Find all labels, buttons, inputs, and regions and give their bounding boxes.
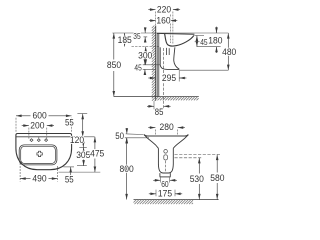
drain hidden centerline (165, 161, 167, 173)
tick 50 bottom (125, 137, 149, 139)
svg-text:220: 220 (157, 4, 171, 14)
svg-text:55: 55 (65, 175, 74, 185)
bowl inner (21, 146, 56, 163)
floor hatch band (156, 97, 199, 100)
dimension 580 (216, 155, 218, 173)
line at 46.7 right (197, 46, 221, 48)
dimension 530 (198, 158, 200, 174)
dimension 180 (216, 27, 218, 33)
dimension 600 (15, 118, 17, 132)
svg-text:85: 85 (155, 107, 164, 117)
svg-text:305: 305 (76, 150, 90, 160)
drain hole detail (164, 150, 168, 154)
svg-text:475: 475 (90, 149, 104, 159)
dimension 200 (28, 128, 30, 140)
dimension 50 (126, 128, 128, 134)
basin back edge (156, 33, 158, 97)
ground hatch band (134, 200, 194, 204)
dimension 55 top (82, 114, 84, 137)
floor line (114, 96, 199, 98)
svg-text:185: 185 (118, 35, 132, 45)
svg-text:850: 850 (107, 60, 121, 70)
dimension 490 (19, 163, 21, 182)
dimension 185 (124, 33, 126, 36)
shroud left edge (159, 47, 161, 64)
dimension 60 (159, 177, 161, 182)
dimension 480 (227, 33, 229, 70)
pedestal column with rounded bottom (158, 148, 173, 173)
wall face line (155, 26, 157, 101)
svg-text:295: 295 (162, 73, 176, 83)
dimension 160 (149, 20, 156, 22)
svg-text:120: 120 (70, 135, 84, 145)
svg-text:300: 300 (138, 50, 152, 60)
svg-text:180: 180 (208, 35, 222, 45)
svg-text:45: 45 (200, 38, 208, 47)
ext of inner back line (72, 136, 95, 138)
dimension 220 (155, 12, 157, 26)
svg-text:600: 600 (33, 111, 47, 121)
dimension 35 (144, 36, 148, 38)
tick 55-top (77, 113, 87, 115)
dimension 850 (113, 33, 115, 60)
outer outline (16, 134, 72, 170)
pedestal plinth right side (169, 173, 171, 177)
svg-text:530: 530 (190, 174, 204, 184)
bowl outer (19, 145, 57, 165)
dashed ext 530 (175, 157, 203, 159)
inner back line (16, 136, 72, 138)
trap under bowl (166, 48, 168, 55)
dimension 120 (82, 137, 84, 148)
tick 50 top (126, 133, 144, 136)
faucet hole right (45, 139, 48, 142)
wall hatch band (152, 26, 156, 101)
shroud bottom edge (160, 65, 179, 70)
svg-text:800: 800 (120, 164, 134, 174)
ext line 475 bottom (59, 171, 101, 173)
dashed line under basin left (132, 46, 159, 48)
drain cross (37, 151, 42, 156)
faucet hole middle mark (38, 137, 40, 138)
left wing underside (144, 135, 158, 149)
svg-text:35: 35 (133, 32, 141, 41)
svg-text:175: 175 (158, 189, 172, 199)
dimension 475 (94, 137, 96, 150)
faucet hole middle (37, 139, 40, 142)
drain centerline dashed (163, 48, 165, 109)
dimension 295 (155, 72, 157, 82)
dimension 45 left (144, 60, 146, 65)
svg-text:280: 280 (160, 122, 174, 132)
svg-text:45: 45 (134, 64, 142, 73)
dimension 280 (154, 130, 156, 136)
dimension 85 bottom of side view (153, 101, 155, 109)
svg-text:490: 490 (32, 174, 46, 184)
basin rim top line (157, 32, 194, 35)
shroud right edge with flare (174, 47, 180, 69)
svg-text:200: 200 (30, 121, 44, 131)
svg-text:60: 60 (161, 179, 169, 189)
faucet hole left (30, 139, 33, 142)
svg-text:50: 50 (115, 131, 124, 141)
dimension 305 (83, 147, 85, 150)
dimension 175 (155, 190, 157, 197)
dashed ext 580 (175, 154, 222, 156)
pedestal foot bottom (160, 176, 171, 178)
svg-text:55: 55 (65, 118, 74, 128)
overflow detail (164, 155, 168, 160)
ext line shroud bottom right (180, 69, 229, 71)
dimension 800 (126, 138, 128, 200)
basin top edge (144, 134, 188, 136)
pedestal plinth left side (159, 173, 161, 177)
top extension line at rim level (112, 32, 228, 34)
svg-text:160: 160 (156, 15, 170, 25)
dimension 55 bottom (70, 167, 72, 177)
svg-text:480: 480 (222, 47, 236, 57)
tick 120 bottom (79, 146, 87, 148)
tick 305 bottom (77, 165, 87, 167)
dimension 300 (145, 47, 147, 50)
tick 45-left bottom (143, 68, 156, 70)
svg-text:580: 580 (210, 173, 224, 183)
right wing underside (173, 135, 188, 149)
ground line (134, 199, 219, 201)
tick 55-bottom top (63, 166, 74, 168)
bowl profile curve (165, 34, 194, 46)
dimension 45 right (194, 35, 204, 37)
tick 45-left top (143, 64, 161, 66)
